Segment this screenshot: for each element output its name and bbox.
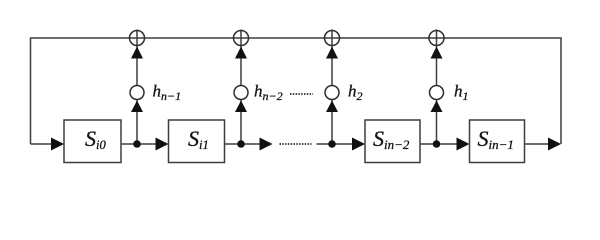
svg-text:h2: h2: [348, 82, 363, 104]
svg-text:h1: h1: [454, 82, 469, 104]
svg-text:hn−2: hn−2: [254, 82, 283, 104]
svg-text:hn−1: hn−1: [153, 82, 182, 104]
